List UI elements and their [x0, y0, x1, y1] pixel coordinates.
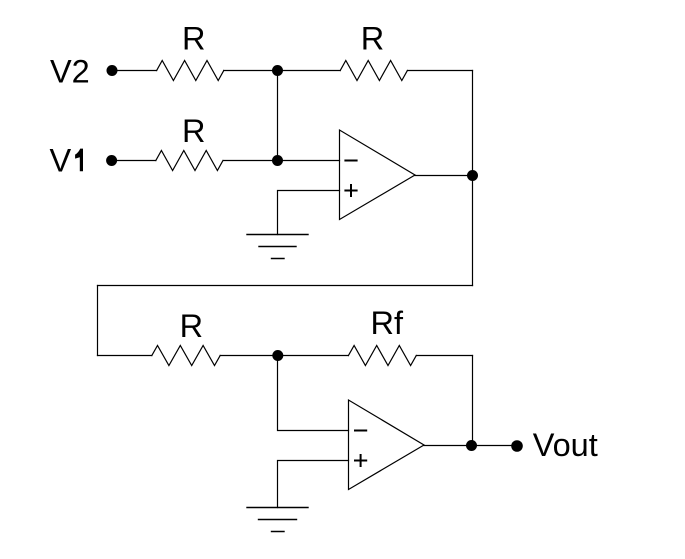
resistor Rf: [348, 346, 416, 366]
wire R2 to right rail: [408, 70, 473, 72]
node V2 terminal dot: [107, 65, 118, 76]
wire U1 noninverting input: [278, 191, 340, 235]
wire feedback left vertical: [97, 286, 99, 356]
wire node A to R2: [278, 70, 341, 72]
wire feedback horizontal: [98, 285, 473, 287]
node A junction dot (top): [272, 65, 283, 76]
node C junction dot (U1 output on rail): [467, 170, 478, 181]
wire output to Vout terminal: [472, 445, 518, 447]
op-amp U1: [340, 130, 416, 220]
wire R3 to node B: [223, 160, 339, 162]
svg-text:R: R: [182, 113, 205, 149]
wire Rf right vertical to output node: [472, 356, 474, 446]
op-amp U2: [349, 400, 425, 490]
node D junction dot (second stage inverting node): [272, 350, 283, 361]
op-amp U2 plus pin mark: [355, 455, 366, 466]
wire left to R4: [98, 355, 152, 357]
wire right rail vertical: [472, 71, 474, 286]
wire R1 to node A: [224, 70, 278, 72]
svg-text:V: V: [50, 142, 72, 178]
resistor R2: [340, 61, 407, 81]
node V1 terminal dot: [106, 155, 117, 166]
node Vout terminal dot: [511, 440, 523, 452]
svg-text:Vout: Vout: [533, 427, 598, 463]
ground G2: [247, 508, 308, 532]
resistor R1: [157, 61, 224, 81]
svg-text:R: R: [180, 308, 203, 344]
wire Rf to right vertical: [416, 355, 472, 357]
wire V1 terminal to R3: [112, 160, 156, 162]
node E junction dot (U2 output): [466, 440, 477, 451]
wire R4 to node D: [220, 355, 348, 357]
resistor R3: [156, 151, 223, 171]
svg-text:V2: V2: [50, 53, 90, 89]
wire node A to node B vertical: [277, 71, 279, 161]
wire node D to U2 inverting input: [278, 356, 349, 431]
ground G1: [247, 235, 308, 259]
wire U2 output: [424, 445, 472, 447]
svg-text:R: R: [182, 21, 205, 57]
svg-text:R: R: [361, 21, 384, 57]
op-amp U2 minus pin mark: [355, 430, 366, 432]
op-amp U1 plus pin mark: [345, 185, 356, 196]
wire V2 terminal to R1: [112, 70, 157, 72]
resistor R4: [152, 346, 220, 366]
wire U2 noninverting input: [278, 461, 349, 508]
svg-text:Rf: Rf: [371, 305, 404, 341]
op-amp U1 minus pin mark: [345, 160, 356, 162]
node B junction dot (inverting input): [272, 155, 283, 166]
wire U1 output: [415, 175, 473, 177]
